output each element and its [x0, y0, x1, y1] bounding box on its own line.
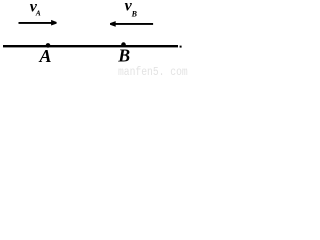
svg-text:manfen5. com: manfen5. com: [118, 66, 188, 78]
svg-text:A: A: [39, 46, 52, 66]
wire: velocity vector vB shaft (points left): [115, 23, 154, 25]
background: [0, 0, 190, 78]
node: period dot at right end of track: [180, 46, 182, 48]
arrowhead of vector vB: [110, 21, 116, 27]
svg-text:A: A: [35, 8, 41, 17]
svg-text:B: B: [117, 46, 130, 66]
svg-text:B: B: [131, 9, 138, 18]
node B: [121, 42, 126, 47]
wire: velocity vector vA shaft (points right): [19, 22, 53, 24]
arrowhead of vector vA: [51, 20, 57, 26]
wire: straight track line through A and B: [3, 45, 178, 47]
node A: [46, 43, 51, 48]
